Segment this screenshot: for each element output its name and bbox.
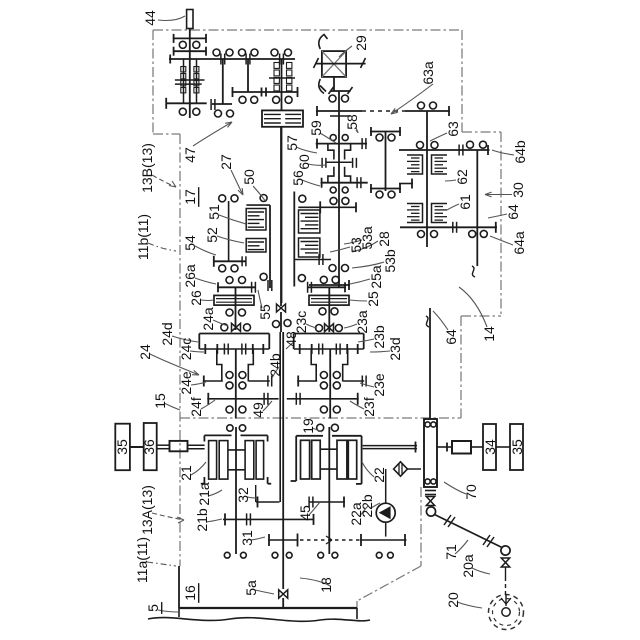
svg-text:25: 25 xyxy=(365,291,381,307)
svg-text:55: 55 xyxy=(257,304,273,320)
svg-text:24d: 24d xyxy=(159,322,175,345)
svg-text:24c: 24c xyxy=(178,338,194,361)
svg-text:19: 19 xyxy=(300,418,316,434)
svg-text:56: 56 xyxy=(290,170,306,186)
svg-text:35: 35 xyxy=(114,439,130,455)
svg-text:23f: 23f xyxy=(361,397,377,417)
svg-text:31: 31 xyxy=(239,530,255,546)
svg-text:53b: 53b xyxy=(382,249,398,273)
svg-text:58: 58 xyxy=(344,114,360,130)
svg-text:51: 51 xyxy=(206,204,222,220)
svg-text:16: 16 xyxy=(182,585,198,601)
svg-text:64: 64 xyxy=(443,329,459,345)
svg-text:62: 62 xyxy=(454,169,470,185)
svg-text:71: 71 xyxy=(443,544,459,560)
svg-text:54: 54 xyxy=(182,235,198,251)
svg-text:23e: 23e xyxy=(371,373,387,397)
svg-text:36: 36 xyxy=(141,439,157,455)
svg-text:13A(13): 13A(13) xyxy=(139,485,155,535)
svg-text:20: 20 xyxy=(445,592,461,608)
svg-text:21a: 21a xyxy=(196,482,212,506)
svg-text:50: 50 xyxy=(241,169,257,185)
svg-text:44: 44 xyxy=(142,10,158,26)
svg-text:24b: 24b xyxy=(267,353,283,377)
svg-text:52: 52 xyxy=(204,227,220,243)
svg-text:22b: 22b xyxy=(359,494,375,518)
svg-text:22: 22 xyxy=(371,467,387,483)
svg-text:63a: 63a xyxy=(420,61,436,85)
svg-text:20a: 20a xyxy=(460,554,476,578)
svg-text:70: 70 xyxy=(463,484,479,500)
svg-text:13B(13): 13B(13) xyxy=(139,143,155,193)
svg-text:49: 49 xyxy=(250,402,266,418)
svg-text:21: 21 xyxy=(178,465,194,481)
svg-text:25a: 25a xyxy=(368,265,384,289)
svg-text:14: 14 xyxy=(481,326,497,342)
svg-text:61: 61 xyxy=(457,194,473,210)
svg-text:24a: 24a xyxy=(200,307,216,331)
svg-text:53a: 53a xyxy=(359,226,375,250)
svg-text:57: 57 xyxy=(284,135,300,151)
svg-text:5: 5 xyxy=(145,604,161,612)
svg-text:23a: 23a xyxy=(354,310,370,334)
svg-text:29: 29 xyxy=(353,35,369,51)
svg-text:27: 27 xyxy=(218,154,234,170)
svg-text:17: 17 xyxy=(182,189,198,205)
svg-text:24f: 24f xyxy=(188,397,204,417)
svg-text:64: 64 xyxy=(505,204,521,220)
svg-text:23c: 23c xyxy=(293,311,309,334)
svg-text:47: 47 xyxy=(182,147,198,163)
svg-text:34: 34 xyxy=(482,439,498,455)
svg-text:24e: 24e xyxy=(178,371,194,395)
svg-text:26a: 26a xyxy=(182,264,198,288)
svg-text:60: 60 xyxy=(296,154,312,170)
svg-text:59: 59 xyxy=(308,120,324,136)
svg-text:11b(11): 11b(11) xyxy=(135,214,151,260)
svg-text:28: 28 xyxy=(376,231,392,247)
svg-text:21b: 21b xyxy=(194,508,210,532)
svg-text:30: 30 xyxy=(510,182,526,198)
svg-text:15: 15 xyxy=(152,393,168,409)
svg-text:24: 24 xyxy=(137,344,153,360)
svg-text:48: 48 xyxy=(283,331,299,347)
svg-text:23d: 23d xyxy=(387,337,403,360)
svg-text:35: 35 xyxy=(509,439,525,455)
svg-text:64a: 64a xyxy=(511,231,527,255)
svg-text:64b: 64b xyxy=(512,140,528,164)
svg-text:18: 18 xyxy=(318,577,334,593)
svg-text:45: 45 xyxy=(297,505,313,521)
svg-text:26: 26 xyxy=(188,290,204,306)
svg-text:63: 63 xyxy=(445,121,461,137)
svg-text:11a(11): 11a(11) xyxy=(134,537,150,583)
svg-text:23b: 23b xyxy=(371,325,387,349)
svg-text:5a: 5a xyxy=(243,580,259,596)
svg-text:32: 32 xyxy=(235,487,251,503)
